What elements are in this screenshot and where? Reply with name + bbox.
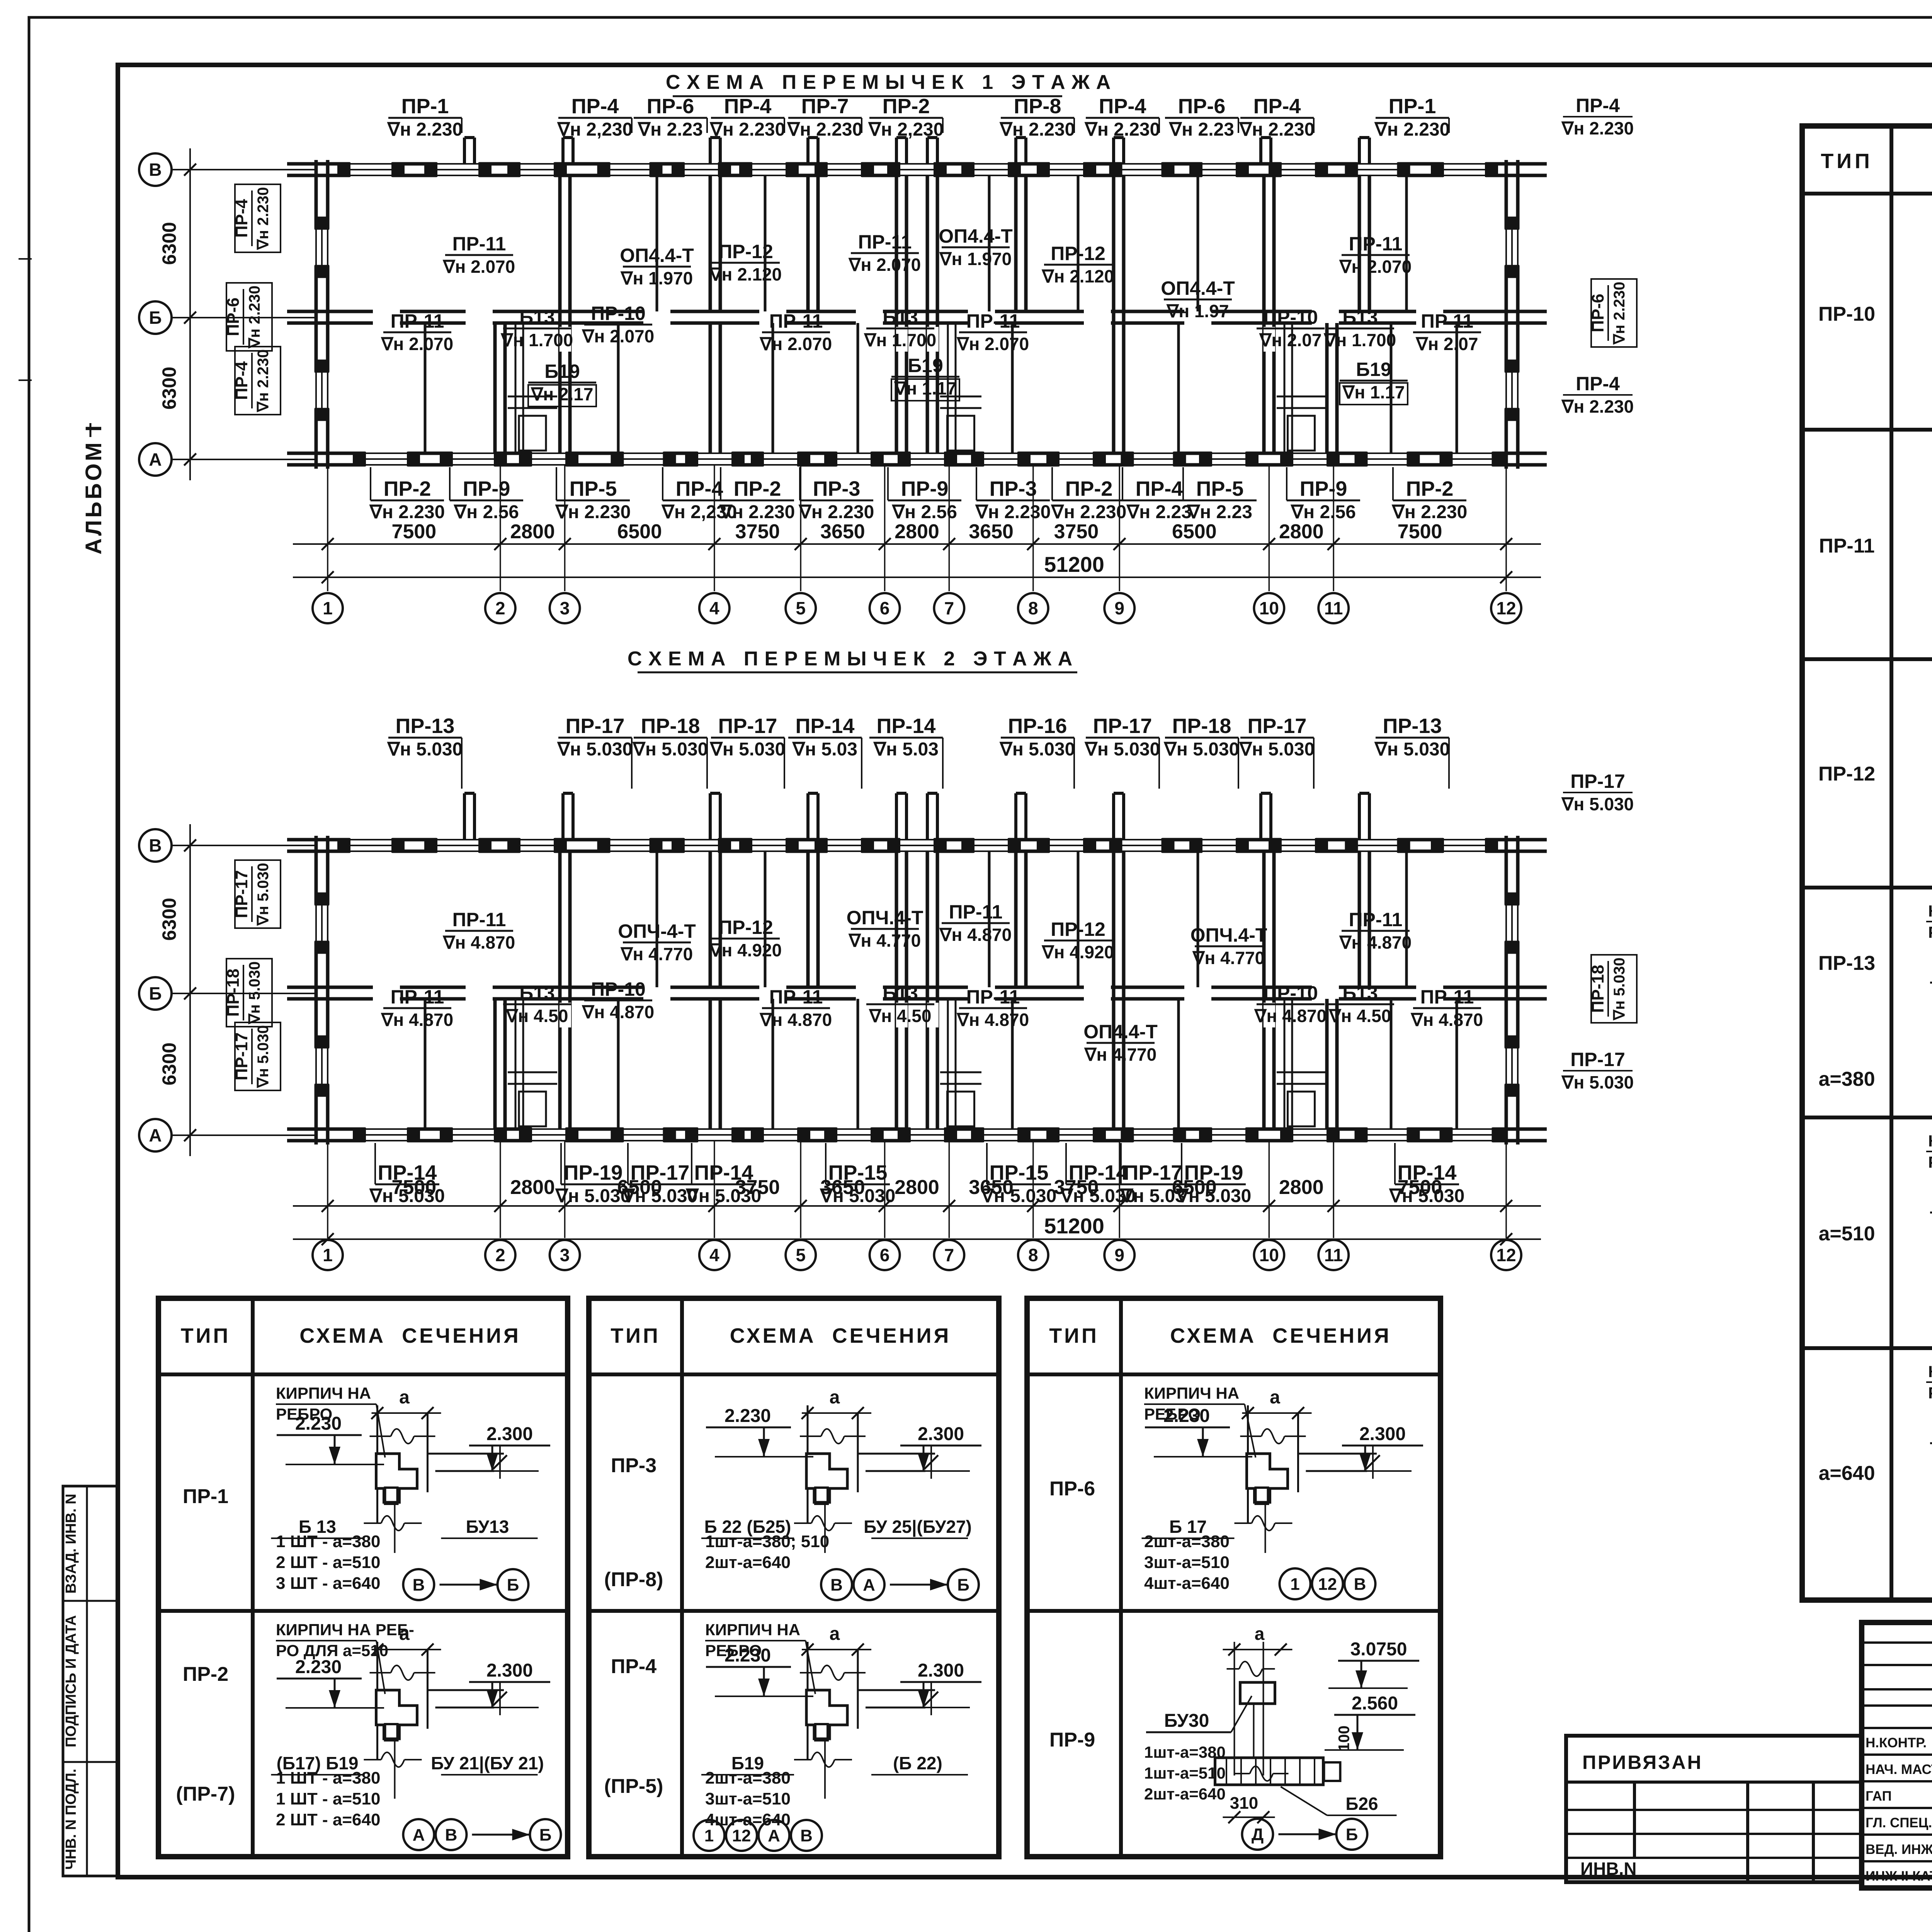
svg-text:2шт-а=380: 2шт-а=380 [1144, 1532, 1230, 1551]
svg-text:∇н 5.030: ∇н 5.030 [387, 739, 463, 760]
svg-text:∇н 2.230: ∇н 2.230 [787, 119, 863, 140]
svg-text:1: 1 [323, 598, 333, 618]
svg-text:(ПР-7): (ПР-7) [176, 1783, 235, 1805]
svg-text:ПР-11: ПР-11 [391, 986, 444, 1008]
svg-text:В: В [830, 1575, 843, 1594]
svg-text:∇н 2.56: ∇н 2.56 [891, 502, 957, 522]
svg-text:12: 12 [1496, 598, 1516, 618]
dimension row 2 total [293, 577, 1541, 578]
light partitions upper zone [656, 175, 658, 276]
svg-text:Б: Б [957, 1575, 969, 1594]
svg-text:ПР-13: ПР-13 [1818, 952, 1875, 975]
svg-text:3750: 3750 [735, 520, 780, 543]
svg-text:Б13: Б13 [1342, 982, 1378, 1004]
svg-text:ПР-11: ПР-11 [452, 233, 506, 255]
svg-text:а: а [1255, 1624, 1265, 1644]
svg-text:12: 12 [1318, 1575, 1337, 1594]
svg-text:ПР-14: ПР-14 [877, 714, 936, 738]
left vertical axis line [189, 824, 191, 1156]
svg-text:1: 1 [1290, 1575, 1299, 1594]
svg-text:ПР-14: ПР-14 [1069, 1161, 1128, 1184]
svg-text:ПР-11: ПР-11 [769, 310, 823, 332]
svg-text:ТИП: ТИП [1049, 1324, 1099, 1347]
svg-text:∇н 2.230: ∇н 2.230 [255, 349, 272, 413]
svg-text:2.300: 2.300 [918, 1424, 964, 1444]
svg-text:ПР-14: ПР-14 [378, 1161, 437, 1184]
svg-text:ПР-15: ПР-15 [828, 1161, 888, 1184]
light partitions lower zone [424, 999, 427, 1076]
svg-text:ПР-15: ПР-15 [990, 1161, 1049, 1184]
svg-text:∇н 5.030: ∇н 5.030 [1084, 739, 1160, 760]
svg-text:∇н 5.030: ∇н 5.030 [255, 1025, 272, 1088]
building walls [287, 838, 1547, 842]
svg-text:ПР 11: ПР 11 [1421, 310, 1473, 332]
svg-text:∇н 4.870: ∇н 4.870 [442, 932, 515, 952]
svg-text:∇н 5.03: ∇н 5.03 [873, 739, 939, 760]
svg-text:ВЕД. ИНЖ.: ВЕД. ИНЖ. [1866, 1842, 1932, 1857]
svg-text:∇н 5.030: ∇н 5.030 [369, 1186, 445, 1206]
svg-text:ПР-6: ПР-6 [1049, 1478, 1095, 1500]
svg-text:∇н 2.230: ∇н 2.230 [1084, 119, 1160, 140]
svg-text:РЕБРО: РЕБРО [1928, 1384, 1932, 1402]
svg-text:6500: 6500 [617, 520, 662, 543]
svg-text:5: 5 [796, 598, 806, 618]
svg-text:3 ШТ - а=640: 3 ШТ - а=640 [276, 1574, 380, 1593]
svg-text:а: а [1270, 1387, 1280, 1408]
svg-text:Б19: Б19 [1356, 359, 1391, 380]
svg-text:51200: 51200 [1044, 552, 1104, 577]
svg-text:РЕБРО: РЕБРО [1928, 1153, 1932, 1171]
svg-text:ПР-19: ПР-19 [1184, 1161, 1243, 1184]
light partitions upper zone [656, 851, 658, 952]
svg-text:ВЗАД. ИНВ. N: ВЗАД. ИНВ. N [63, 1494, 79, 1594]
svg-text:∇н 2.230: ∇н 2.230 [798, 502, 874, 522]
svg-text:6300: 6300 [158, 367, 180, 410]
svg-text:∇н 2.230: ∇н 2.230 [1391, 502, 1468, 522]
svg-text:С Х Е М А П Е Р Е М Ы Ч Е К: С Х Е М А П Е Р Е М Ы Ч Е К 2 Э Т А Ж А [628, 648, 1073, 670]
svg-text:Б13: Б13 [883, 306, 918, 328]
svg-text:2.230: 2.230 [724, 1645, 771, 1666]
svg-text:∇н 1.17: ∇н 1.17 [1342, 382, 1405, 402]
svg-text:ПР-10: ПР-10 [1818, 303, 1875, 325]
svg-text:ПР-4: ПР-4 [724, 95, 772, 118]
svg-text:а=510: а=510 [1818, 1223, 1875, 1245]
svg-text:∇н 2.23: ∇н 2.23 [1168, 119, 1234, 140]
svg-text:В: В [445, 1825, 457, 1844]
svg-text:∇н 1.700: ∇н 1.700 [1323, 330, 1396, 350]
svg-text:ПР-6: ПР-6 [1178, 95, 1226, 118]
svg-text:7500: 7500 [392, 520, 437, 543]
svg-text:∇н 5.030: ∇н 5.030 [1561, 794, 1634, 814]
svg-text:БУ 25|(БУ27): БУ 25|(БУ27) [864, 1517, 972, 1537]
svg-text:ПР-17: ПР-17 [1570, 1049, 1625, 1070]
svg-text:КИРПИЧ НА: КИРПИЧ НА [1928, 902, 1932, 920]
svg-text:ПР-4: ПР-4 [611, 1655, 656, 1678]
svg-text:2.230: 2.230 [724, 1406, 771, 1426]
svg-text:ПР-11: ПР-11 [769, 986, 823, 1008]
svg-text:ПР-4: ПР-4 [1576, 373, 1620, 395]
svg-text:3.0750: 3.0750 [1350, 1639, 1407, 1660]
svg-text:ОП4.4-Т: ОП4.4-Т [620, 245, 694, 266]
svg-text:∇н 2.230: ∇н 2.230 [246, 286, 263, 349]
svg-text:12: 12 [732, 1826, 751, 1845]
svg-text:9: 9 [1114, 598, 1124, 618]
svg-text:∇н 5.030: ∇н 5.030 [981, 1186, 1057, 1206]
svg-text:ПР-5: ПР-5 [1196, 477, 1244, 500]
svg-text:ПР-17: ПР-17 [1248, 714, 1307, 738]
svg-text:∇н 2,230: ∇н 2,230 [868, 119, 944, 140]
svg-text:2800: 2800 [1279, 1176, 1324, 1199]
dimension row 1 [293, 1205, 1541, 1207]
svg-text:∇н 4.770: ∇н 4.770 [848, 930, 921, 951]
svg-text:∇н 5.03: ∇н 5.03 [792, 739, 857, 760]
svg-text:ПР-14: ПР-14 [796, 714, 855, 738]
svg-text:ПР-4: ПР-4 [1576, 95, 1620, 116]
svg-text:2: 2 [495, 598, 505, 618]
svg-text:∇н 5.030: ∇н 5.030 [709, 739, 786, 760]
svg-text:ПР-11: ПР-11 [1420, 986, 1474, 1008]
svg-text:ПР-13: ПР-13 [1383, 714, 1442, 738]
windows bottom wall [365, 451, 408, 467]
stair cores [515, 323, 517, 453]
svg-text:6: 6 [880, 598, 890, 618]
wall stubs above top wall [463, 138, 466, 164]
svg-text:ПР-11: ПР-11 [966, 310, 1020, 332]
svg-text:∇н 4.870: ∇н 4.870 [1254, 1006, 1327, 1026]
svg-text:а=380: а=380 [1818, 1068, 1875, 1090]
title block frame [1862, 1622, 1932, 1888]
svg-text:10: 10 [1259, 1245, 1279, 1265]
svg-text:2: 2 [495, 1245, 505, 1265]
left section table frame [1802, 126, 1932, 1600]
windows top wall [350, 837, 392, 854]
svg-text:ПР-14: ПР-14 [1398, 1161, 1457, 1184]
stair cores [515, 999, 517, 1129]
svg-text:∇н 2.070: ∇н 2.070 [442, 257, 515, 277]
svg-text:В: В [149, 835, 162, 855]
svg-text:1шт-а=380: 1шт-а=380 [1144, 1743, 1226, 1761]
svg-text:ПР-11: ПР-11 [949, 901, 1003, 923]
svg-text:БУ13: БУ13 [466, 1517, 509, 1537]
svg-text:ПР-2: ПР-2 [734, 477, 781, 500]
svg-text:∇н 4.870: ∇н 4.870 [939, 925, 1012, 945]
svg-text:ПР-12: ПР-12 [718, 917, 773, 938]
svg-text:2.300: 2.300 [1359, 1424, 1406, 1444]
svg-text:∇н 1.970: ∇н 1.970 [620, 268, 693, 288]
left margin stamp boxes [63, 1486, 117, 1876]
svg-text:ОП4.4-Т: ОП4.4-Т [1161, 277, 1235, 299]
svg-text:∇н 2.070: ∇н 2.070 [381, 334, 453, 354]
svg-text:2800: 2800 [895, 1176, 939, 1199]
windows side walls [314, 229, 330, 266]
svg-text:ОПЧ.4-Т: ОПЧ.4-Т [1190, 924, 1267, 946]
svg-text:ПР-10: ПР-10 [1263, 306, 1318, 328]
svg-text:СХЕМА СЕЧЕНИЯ: СХЕМА СЕЧЕНИЯ [299, 1324, 521, 1347]
svg-text:В: В [1354, 1575, 1366, 1594]
svg-text:2.230: 2.230 [295, 1657, 342, 1677]
svg-text:100: 100 [1336, 1726, 1353, 1752]
svg-text:Б19: Б19 [544, 361, 580, 382]
svg-text:6300: 6300 [158, 898, 180, 940]
svg-text:∇н 4.50: ∇н 4.50 [869, 1006, 932, 1026]
dimension row 2 total [293, 1238, 1541, 1240]
svg-text:ПР-4: ПР-4 [1136, 477, 1183, 500]
svg-text:ПР-11: ПР-11 [452, 909, 506, 930]
svg-text:∇н 2.230: ∇н 2.230 [999, 119, 1075, 140]
svg-text:2 ШТ - а=640: 2 ШТ - а=640 [276, 1810, 380, 1829]
svg-text:1: 1 [323, 1245, 333, 1265]
svg-text:ПР-3: ПР-3 [611, 1454, 656, 1477]
svg-text:∇н 5.030: ∇н 5.030 [1374, 739, 1450, 760]
svg-text:7500: 7500 [1398, 520, 1442, 543]
svg-text:ПР-1: ПР-1 [183, 1485, 228, 1508]
svg-text:4: 4 [709, 598, 719, 618]
svg-text:Б13: Б13 [1342, 306, 1378, 328]
svg-text:2.300: 2.300 [918, 1660, 964, 1681]
axis lines below plan [327, 1141, 328, 1238]
svg-text:а: а [830, 1624, 840, 1644]
axis number circles [313, 1240, 343, 1270]
svg-text:12: 12 [1496, 1245, 1516, 1265]
svg-text:∇н 1.97: ∇н 1.97 [1166, 301, 1229, 321]
svg-text:6500: 6500 [1172, 520, 1217, 543]
dimension row 1 [293, 543, 1541, 545]
svg-text:ПР-9: ПР-9 [463, 477, 510, 500]
svg-text:ПР-11: ПР-11 [1819, 535, 1874, 557]
svg-text:ПР-10: ПР-10 [1263, 982, 1318, 1004]
svg-text:ПР-13: ПР-13 [396, 714, 455, 738]
svg-text:∇н 5.030: ∇н 5.030 [1239, 739, 1315, 760]
svg-text:∇н 4.920: ∇н 4.920 [709, 940, 782, 960]
svg-text:2шт-а=640: 2шт-а=640 [1144, 1785, 1226, 1803]
svg-text:ПР-11: ПР-11 [391, 310, 444, 332]
svg-text:∇н 4.50: ∇н 4.50 [505, 1006, 568, 1026]
windows bottom wall [365, 1127, 408, 1143]
svg-text:ПОДПИСЬ И ДАТА: ПОДПИСЬ И ДАТА [63, 1615, 79, 1747]
svg-text:3750: 3750 [1054, 520, 1099, 543]
svg-text:∇н 2.230: ∇н 2.230 [1051, 502, 1127, 522]
svg-text:∇н 2.230: ∇н 2.230 [719, 502, 795, 522]
svg-text:∇н 2.230: ∇н 2.230 [1561, 118, 1634, 138]
svg-text:А: А [149, 1125, 162, 1145]
svg-text:ПР-10: ПР-10 [591, 303, 646, 324]
svg-text:11: 11 [1324, 598, 1343, 618]
svg-text:В: В [800, 1826, 813, 1845]
svg-text:∇н 4.870: ∇н 4.870 [381, 1010, 453, 1030]
svg-text:∇н 4.870: ∇н 4.870 [1410, 1010, 1483, 1030]
svg-text:ПР-2: ПР-2 [883, 95, 930, 118]
svg-text:КИРПИЧ НА: КИРПИЧ НА [1928, 1132, 1932, 1150]
svg-text:∇н 2.070: ∇н 2.070 [582, 326, 654, 346]
svg-text:Д: Д [1252, 1825, 1264, 1844]
windows side walls [314, 905, 330, 942]
svg-text:1 ШТ - а=510: 1 ШТ - а=510 [276, 1789, 380, 1808]
svg-text:ПР-2: ПР-2 [1065, 477, 1113, 500]
svg-text:∇н 2.120: ∇н 2.120 [709, 264, 782, 284]
svg-text:Н.КОНТР.: Н.КОНТР. [1866, 1735, 1927, 1750]
svg-text:Б26: Б26 [1345, 1794, 1378, 1814]
svg-text:∇н 2.230: ∇н 2.230 [709, 119, 786, 140]
svg-text:Б: Б [1346, 1825, 1358, 1844]
interior cross walls [558, 851, 562, 1129]
svg-text:∇н 4.920: ∇н 4.920 [1041, 942, 1114, 962]
svg-text:∇н 2.230: ∇н 2.230 [1374, 119, 1450, 140]
svg-text:3шт-а=510: 3шт-а=510 [705, 1789, 791, 1808]
svg-text:ГАП: ГАП [1866, 1789, 1892, 1804]
svg-text:(ПР-5): (ПР-5) [604, 1775, 663, 1798]
svg-text:ОПЧ-4-Т: ОПЧ-4-Т [618, 920, 696, 942]
svg-text:а: а [399, 1387, 410, 1408]
svg-text:∇н 2.230: ∇н 2.230 [1561, 396, 1634, 417]
svg-text:∇н 2.120: ∇н 2.120 [1041, 266, 1114, 286]
svg-text:В: В [149, 160, 162, 180]
svg-text:∇н 4.870: ∇н 4.870 [956, 1010, 1029, 1030]
svg-text:∇н 1.970: ∇н 1.970 [939, 249, 1012, 269]
svg-text:1шт-а=380; 510: 1шт-а=380; 510 [705, 1532, 829, 1551]
svg-text:2шт-а=380: 2шт-а=380 [705, 1769, 791, 1787]
svg-text:ПР-1: ПР-1 [401, 95, 449, 118]
svg-text:2800: 2800 [510, 1176, 555, 1199]
svg-text:ПР-18: ПР-18 [641, 714, 700, 738]
svg-text:1 ШТ - а=380: 1 ШТ - а=380 [276, 1532, 380, 1551]
svg-text:ТИП: ТИП [611, 1324, 660, 1347]
svg-text:ПР-3: ПР-3 [990, 477, 1037, 500]
svg-text:3650: 3650 [820, 520, 865, 543]
svg-text:ПР-4: ПР-4 [1099, 95, 1146, 118]
svg-text:БУ 21|(БУ 21): БУ 21|(БУ 21) [431, 1753, 544, 1773]
svg-text:ПР-11: ПР-11 [858, 231, 912, 253]
svg-text:2.560: 2.560 [1352, 1693, 1398, 1714]
svg-text:ПР-11: ПР-11 [1349, 909, 1403, 930]
svg-text:ПР-12: ПР-12 [1818, 763, 1875, 785]
svg-text:ПР-11: ПР-11 [966, 986, 1020, 1008]
svg-text:ТИП: ТИП [1821, 150, 1873, 173]
svg-text:ПР-2: ПР-2 [183, 1663, 228, 1685]
svg-text:∇н 4.870: ∇н 4.870 [759, 1010, 832, 1030]
svg-text:7: 7 [944, 598, 954, 618]
svg-text:∇н 5.030: ∇н 5.030 [246, 961, 263, 1025]
svg-text:Б: Б [149, 308, 162, 328]
svg-text:3: 3 [560, 1245, 570, 1265]
svg-text:ПР-17: ПР-17 [1124, 1161, 1183, 1184]
svg-text:РЕБРО: РЕБРО [1928, 923, 1932, 941]
svg-text:2.300: 2.300 [486, 1424, 533, 1444]
svg-text:ПР-7: ПР-7 [801, 95, 849, 118]
svg-text:2.230: 2.230 [295, 1413, 342, 1434]
svg-text:КИРПИЧ НА РЕБ-: КИРПИЧ НА РЕБ- [276, 1621, 414, 1639]
svg-text:а=640: а=640 [1818, 1462, 1875, 1485]
left vertical axis line [189, 148, 191, 480]
svg-text:ОП4.4-Т: ОП4.4-Т [1083, 1021, 1158, 1043]
svg-text:ПР-2: ПР-2 [1406, 477, 1454, 500]
svg-text:11: 11 [1324, 1245, 1343, 1265]
axis lines below plan [327, 465, 328, 591]
windows top wall [350, 162, 392, 178]
svg-text:6300: 6300 [158, 222, 180, 265]
svg-text:∇н 5.030: ∇н 5.030 [999, 739, 1075, 760]
svg-text:ПР-17: ПР-17 [1570, 770, 1625, 792]
svg-text:С Х Е М А П Е Р Е М Ы Ч Е К: С Х Е М А П Е Р Е М Ы Ч Е К 1 Э Т А Ж А [666, 71, 1111, 94]
svg-text:3шт-а=510: 3шт-а=510 [1144, 1553, 1230, 1572]
svg-text:(Б 22): (Б 22) [893, 1753, 942, 1773]
privyazan table [1566, 1736, 1861, 1882]
svg-text:ЧНВ. N ПОДЛ.: ЧНВ. N ПОДЛ. [63, 1769, 79, 1869]
svg-text:НАЧ. МАСТ: НАЧ. МАСТ [1866, 1762, 1932, 1777]
svg-text:ПР-4: ПР-4 [1253, 95, 1301, 118]
svg-text:∇н 1.700: ∇н 1.700 [864, 330, 936, 350]
svg-text:1шт-а=510: 1шт-а=510 [1144, 1764, 1226, 1782]
light partitions lower zone [424, 323, 427, 400]
svg-text:∇н 2.230: ∇н 2.230 [387, 119, 463, 140]
svg-text:2 ШТ - а=510: 2 ШТ - а=510 [276, 1553, 380, 1572]
svg-text:∇н 5.030: ∇н 5.030 [632, 739, 708, 760]
svg-text:∇н 2.56: ∇н 2.56 [453, 502, 519, 522]
svg-text:∇н 5.030: ∇н 5.030 [1389, 1186, 1465, 1206]
svg-text:∇н 2.230: ∇н 2.230 [1611, 282, 1628, 345]
svg-text:А: А [149, 449, 162, 469]
svg-text:ПР-14: ПР-14 [694, 1161, 753, 1184]
svg-text:а: а [830, 1387, 840, 1408]
svg-text:А: А [413, 1825, 425, 1844]
svg-text:∇н 5.03: ∇н 5.03 [1120, 1186, 1185, 1206]
svg-text:ПР-12: ПР-12 [718, 241, 773, 262]
door gaps middle wall [373, 985, 400, 1001]
svg-text:∇н 2.230: ∇н 2.230 [1239, 119, 1315, 140]
svg-text:Б19: Б19 [908, 355, 943, 376]
svg-text:Б13: Б13 [519, 306, 555, 328]
svg-text:А: А [768, 1826, 780, 1845]
svg-text:СХЕМА СЕЧЕНИЯ: СХЕМА СЕЧЕНИЯ [730, 1324, 951, 1347]
svg-text:2.300: 2.300 [486, 1660, 533, 1681]
svg-text:ПР-17: ПР-17 [718, 714, 777, 738]
svg-text:∇н 5.030: ∇н 5.030 [1611, 957, 1628, 1021]
svg-text:ПР-19: ПР-19 [564, 1161, 623, 1184]
svg-text:ПР-10: ПР-10 [591, 978, 646, 1000]
svg-text:∇н 5.030: ∇н 5.030 [1163, 739, 1240, 760]
svg-text:ПР-16: ПР-16 [1008, 714, 1067, 738]
svg-text:ИНЖ II КАТ: ИНЖ II КАТ [1866, 1869, 1932, 1884]
svg-text:8: 8 [1028, 598, 1038, 618]
svg-text:ТИП: ТИП [181, 1324, 231, 1347]
fold marks [19, 258, 32, 260]
svg-text:2800: 2800 [1279, 520, 1324, 543]
svg-text:∇н 5.030: ∇н 5.030 [820, 1186, 896, 1206]
svg-text:9: 9 [1114, 1245, 1124, 1265]
svg-text:ОПЧ.4-Т: ОПЧ.4-Т [847, 907, 923, 929]
svg-text:51200: 51200 [1044, 1214, 1104, 1238]
svg-text:ПР-3: ПР-3 [813, 477, 861, 500]
svg-text:10: 10 [1259, 598, 1279, 618]
svg-text:∇н 4.770: ∇н 4.770 [1192, 948, 1265, 968]
svg-text:А: А [863, 1575, 875, 1594]
svg-text:ПР-12: ПР-12 [1051, 918, 1105, 940]
svg-text:СХЕМА СЕЧЕНИЯ: СХЕМА СЕЧЕНИЯ [1170, 1324, 1391, 1347]
svg-text:ГЛ. СПЕЦ.: ГЛ. СПЕЦ. [1866, 1815, 1932, 1830]
svg-text:∇н 2.17: ∇н 2.17 [531, 384, 594, 404]
svg-text:ПР-1: ПР-1 [1389, 95, 1436, 118]
interior cross walls [558, 175, 562, 453]
svg-text:5: 5 [796, 1245, 806, 1265]
svg-text:6: 6 [880, 1245, 890, 1265]
svg-text:∇н 2.070: ∇н 2.070 [1339, 257, 1412, 277]
svg-text:∇н 2.230: ∇н 2.230 [255, 187, 272, 250]
svg-text:∇н 2.23: ∇н 2.23 [637, 119, 703, 140]
wall stubs above top wall [463, 793, 466, 840]
svg-text:∇н 2.070: ∇н 2.070 [956, 334, 1029, 354]
svg-text:∇н 4.870: ∇н 4.870 [582, 1002, 654, 1022]
svg-text:∇н 4.50: ∇н 4.50 [1328, 1006, 1391, 1026]
door gaps middle wall [373, 310, 400, 325]
